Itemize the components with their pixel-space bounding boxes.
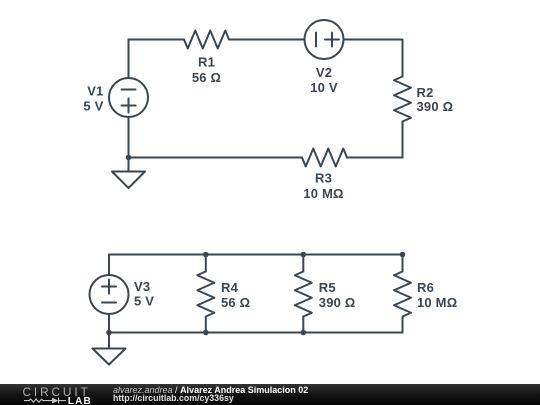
svg-text:R5: R5 bbox=[319, 280, 336, 295]
svg-text:R1: R1 bbox=[198, 55, 215, 70]
node junction dot bottom-left of circuit 1 bbox=[126, 155, 132, 161]
wire top rail circuit 2 bbox=[109, 254, 403, 256]
node junction dot R6 top bbox=[400, 252, 406, 258]
wire R2 to bottom-right corner bbox=[402, 122, 404, 158]
resistor R4 bbox=[197, 255, 250, 333]
voltage source V3 5 V bbox=[90, 255, 155, 333]
node junction dot R4 bottom bbox=[203, 330, 209, 336]
voltage source V2 10 V bbox=[305, 20, 344, 95]
wire R1 to V2 bbox=[229, 39, 305, 41]
svg-text:390 Ω: 390 Ω bbox=[417, 99, 454, 114]
footer bar bbox=[0, 384, 540, 405]
svg-text:LAB: LAB bbox=[68, 396, 92, 405]
wire bottom rail left segment bbox=[129, 157, 303, 159]
footer url line 2 bbox=[113, 393, 234, 403]
node junction dot V3 bottom bbox=[106, 330, 112, 336]
ground circuit 2 bbox=[93, 333, 126, 365]
wire bottom rail circuit 2 bbox=[109, 332, 403, 334]
svg-text:5 V: 5 V bbox=[83, 99, 103, 114]
svg-text:56 Ω: 56 Ω bbox=[221, 295, 250, 310]
CircuitLab logo bbox=[0, 384, 110, 405]
footer credit line 1 bbox=[113, 387, 308, 394]
svg-text:V3: V3 bbox=[134, 279, 150, 294]
node junction dot R5 top bbox=[301, 252, 307, 258]
resistor R6 bbox=[394, 255, 457, 333]
svg-text:V1: V1 bbox=[87, 84, 103, 99]
node junction dot R5 bottom bbox=[301, 330, 307, 336]
svg-text:R6: R6 bbox=[417, 280, 434, 295]
wire top-left corner to R1 bbox=[129, 39, 185, 41]
svg-text:5 V: 5 V bbox=[134, 294, 154, 309]
svg-text:56 Ω: 56 Ω bbox=[192, 70, 221, 85]
resistor R3 bbox=[302, 149, 347, 202]
node junction dot R4 top bbox=[203, 252, 209, 258]
svg-text:R3: R3 bbox=[315, 171, 332, 186]
resistor R2 bbox=[394, 77, 453, 122]
svg-text:10 MΩ: 10 MΩ bbox=[303, 186, 343, 201]
voltage source V1 5 V bbox=[83, 40, 148, 158]
svg-text:390 Ω: 390 Ω bbox=[319, 295, 356, 310]
ground circuit 1 bbox=[112, 158, 145, 189]
resistor R5 bbox=[295, 255, 356, 333]
svg-text:10 MΩ: 10 MΩ bbox=[417, 295, 457, 310]
wire R3 to bottom-right corner bbox=[347, 157, 403, 159]
wire V2 to top-right corner down to R2 bbox=[344, 40, 403, 77]
svg-text:R4: R4 bbox=[221, 280, 239, 295]
svg-text:10 V: 10 V bbox=[310, 80, 338, 95]
svg-text:V2: V2 bbox=[316, 65, 332, 80]
svg-text:R2: R2 bbox=[417, 85, 434, 100]
resistor R1 bbox=[184, 31, 229, 86]
